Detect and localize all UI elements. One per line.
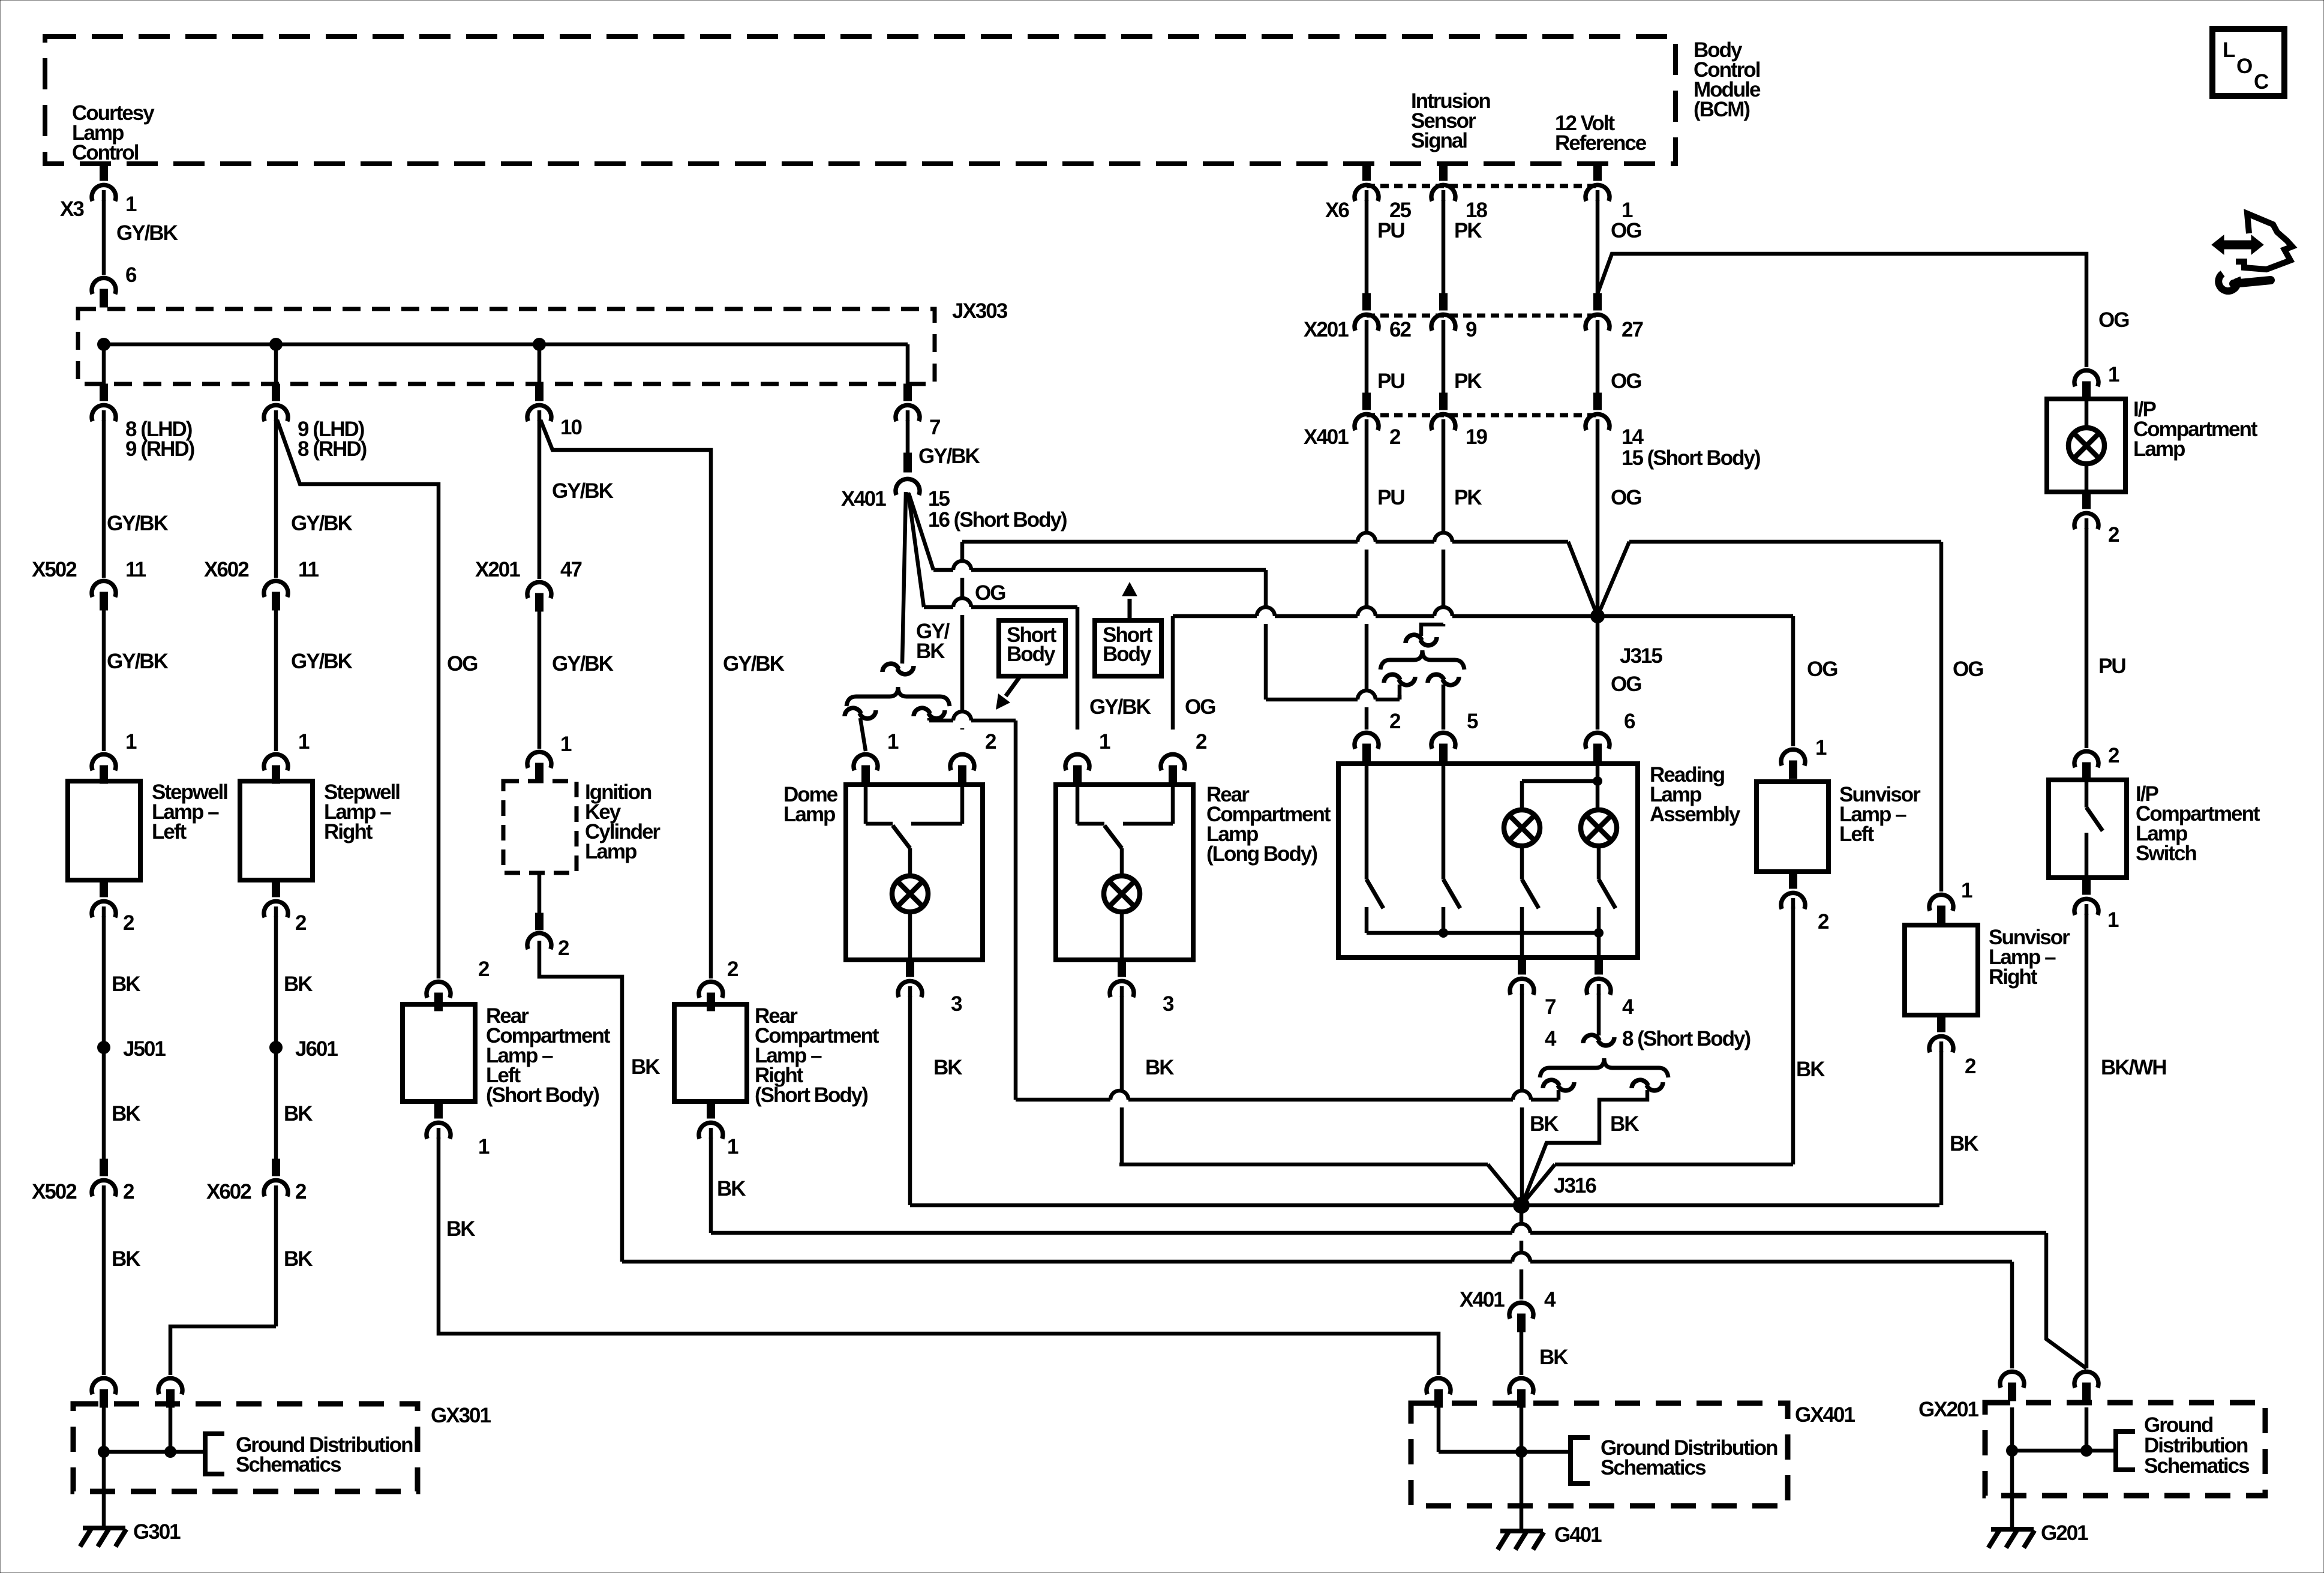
svg-text:GX301: GX301: [431, 1404, 491, 1427]
svg-text:J601: J601: [295, 1037, 338, 1061]
svg-text:Control: Control: [72, 141, 139, 164]
svg-text:2: 2: [2108, 523, 2119, 547]
svg-text:1: 1: [1961, 879, 1972, 902]
svg-text:9 (RHD): 9 (RHD): [125, 437, 194, 461]
svg-text:PU: PU: [2098, 655, 2125, 678]
svg-text:G301: G301: [133, 1520, 181, 1544]
svg-text:16 (Short Body): 16 (Short Body): [928, 508, 1067, 532]
svg-text:PK: PK: [1454, 219, 1482, 242]
svg-text:Schematics: Schematics: [2144, 1454, 2250, 1478]
svg-text:O: O: [2236, 55, 2252, 78]
svg-text:1: 1: [887, 730, 899, 754]
svg-text:62: 62: [1389, 318, 1411, 341]
svg-text:9: 9: [1466, 318, 1477, 341]
svg-text:X401: X401: [1460, 1288, 1505, 1311]
svg-text:GY/BK: GY/BK: [291, 512, 353, 535]
svg-text:BK: BK: [1610, 1112, 1639, 1136]
svg-text:Body: Body: [1103, 643, 1152, 666]
svg-text:Assembly: Assembly: [1650, 803, 1741, 826]
svg-text:BK: BK: [1950, 1132, 1978, 1155]
svg-text:BK: BK: [631, 1055, 660, 1079]
svg-text:15 (Short Body): 15 (Short Body): [1622, 446, 1760, 470]
svg-text:BK: BK: [916, 640, 945, 663]
svg-text:GY/BK: GY/BK: [552, 652, 614, 676]
svg-text:2: 2: [123, 911, 134, 935]
svg-text:C: C: [2254, 70, 2269, 94]
svg-text:OG: OG: [1807, 658, 1837, 681]
svg-text:1: 1: [478, 1135, 490, 1158]
svg-text:Lamp: Lamp: [585, 840, 636, 863]
svg-text:Right: Right: [1989, 965, 2038, 989]
svg-text:19: 19: [1466, 425, 1487, 449]
svg-text:G201: G201: [2041, 1521, 2088, 1545]
svg-text:BK: BK: [284, 972, 313, 996]
svg-text:Schematics: Schematics: [1601, 1456, 1706, 1479]
svg-text:Reference: Reference: [1555, 131, 1647, 155]
svg-text:(Long Body): (Long Body): [1206, 842, 1317, 866]
svg-text:X602: X602: [206, 1180, 251, 1203]
svg-text:J501: J501: [123, 1037, 166, 1061]
svg-text:8 (Short Body): 8 (Short Body): [1622, 1027, 1750, 1050]
svg-text:Switch: Switch: [2136, 842, 2196, 865]
svg-text:2: 2: [478, 957, 490, 981]
svg-text:GY/BK: GY/BK: [116, 221, 178, 245]
svg-text:X3: X3: [60, 197, 84, 221]
svg-text:X201: X201: [475, 558, 520, 581]
svg-text:BK: BK: [112, 1102, 140, 1125]
svg-text:4: 4: [1545, 1027, 1557, 1050]
svg-text:2: 2: [295, 911, 307, 935]
svg-text:11: 11: [125, 558, 146, 581]
svg-text:Schematics: Schematics: [236, 1453, 341, 1476]
svg-text:2: 2: [2108, 744, 2119, 767]
svg-text:7: 7: [1545, 995, 1556, 1019]
svg-text:4: 4: [1622, 995, 1634, 1019]
svg-text:2: 2: [1965, 1055, 1976, 1078]
svg-text:BK: BK: [446, 1217, 475, 1241]
svg-text:PU: PU: [1377, 486, 1404, 509]
svg-text:BK: BK: [1145, 1056, 1174, 1079]
svg-text:15: 15: [928, 487, 950, 511]
svg-text:OG: OG: [2098, 308, 2129, 332]
svg-text:1: 1: [1099, 730, 1110, 754]
svg-text:OG: OG: [447, 652, 478, 676]
svg-text:Body: Body: [1007, 643, 1056, 666]
svg-text:2: 2: [1389, 710, 1401, 733]
svg-text:Lamp: Lamp: [2133, 437, 2185, 461]
svg-text:11: 11: [298, 558, 319, 581]
svg-text:OG: OG: [1611, 673, 1641, 696]
svg-text:2: 2: [558, 936, 569, 960]
svg-text:BK: BK: [1530, 1112, 1559, 1136]
svg-text:GY/BK: GY/BK: [107, 512, 169, 535]
svg-text:1: 1: [727, 1135, 738, 1158]
svg-text:PK: PK: [1454, 486, 1482, 509]
svg-text:GY/BK: GY/BK: [1089, 695, 1151, 719]
svg-text:1: 1: [125, 193, 137, 216]
svg-text:1: 1: [2107, 908, 2119, 932]
svg-text:10: 10: [560, 416, 582, 439]
svg-text:27: 27: [1622, 318, 1643, 341]
svg-text:Signal: Signal: [1411, 129, 1467, 152]
svg-text:OG: OG: [1953, 658, 1983, 681]
svg-text:GY/BK: GY/BK: [552, 479, 614, 503]
svg-text:PU: PU: [1377, 370, 1404, 393]
svg-text:6: 6: [125, 263, 137, 287]
svg-text:14: 14: [1622, 425, 1644, 449]
svg-text:PU: PU: [1377, 219, 1404, 242]
svg-text:2: 2: [985, 730, 996, 754]
svg-text:BK: BK: [717, 1177, 746, 1200]
svg-text:BK: BK: [1796, 1058, 1825, 1081]
svg-text:L: L: [2223, 38, 2235, 62]
svg-text:OG: OG: [1611, 486, 1641, 509]
svg-text:GX201: GX201: [1918, 1398, 1978, 1421]
svg-text:1: 1: [125, 730, 137, 754]
svg-text:2: 2: [123, 1180, 134, 1203]
svg-text:GY/BK: GY/BK: [918, 445, 980, 468]
svg-text:2: 2: [1196, 730, 1207, 754]
svg-text:G401: G401: [1554, 1523, 1602, 1547]
svg-text:GY/BK: GY/BK: [291, 650, 353, 673]
svg-text:BK: BK: [933, 1056, 962, 1079]
svg-text:47: 47: [560, 558, 581, 581]
svg-text:Right: Right: [324, 820, 373, 843]
svg-text:JX303: JX303: [952, 299, 1008, 323]
svg-text:OG: OG: [1611, 219, 1641, 242]
svg-text:GX401: GX401: [1795, 1403, 1855, 1427]
svg-text:X401: X401: [1304, 425, 1349, 449]
svg-text:2: 2: [295, 1180, 307, 1203]
svg-text:8 (RHD): 8 (RHD): [298, 437, 367, 461]
svg-text:BK: BK: [112, 1247, 140, 1271]
svg-text:Left: Left: [152, 820, 187, 843]
svg-text:J315: J315: [1620, 644, 1662, 668]
svg-text:6: 6: [1624, 710, 1635, 733]
svg-text:X602: X602: [204, 558, 249, 581]
svg-text:X502: X502: [32, 1180, 77, 1203]
svg-text:2: 2: [727, 957, 738, 981]
svg-text:OG: OG: [1185, 695, 1215, 719]
svg-text:BK/WH: BK/WH: [2101, 1056, 2166, 1079]
svg-text:PK: PK: [1454, 370, 1482, 393]
svg-text:GY/BK: GY/BK: [723, 652, 785, 676]
svg-text:BK: BK: [284, 1102, 313, 1125]
svg-text:(Short Body): (Short Body): [755, 1083, 867, 1107]
svg-text:(Short Body): (Short Body): [486, 1083, 599, 1107]
svg-text:5: 5: [1467, 710, 1478, 733]
svg-text:1: 1: [2108, 363, 2119, 386]
svg-text:4: 4: [1544, 1288, 1556, 1311]
svg-text:X6: X6: [1325, 199, 1349, 222]
svg-text:BK: BK: [112, 972, 140, 996]
svg-text:GY/BK: GY/BK: [107, 650, 169, 673]
svg-text:2: 2: [1818, 910, 1829, 933]
svg-text:1: 1: [298, 730, 310, 754]
svg-text:3: 3: [951, 992, 962, 1016]
svg-text:Lamp: Lamp: [783, 803, 835, 826]
svg-text:OG: OG: [975, 581, 1005, 605]
svg-text:1: 1: [560, 733, 572, 756]
svg-text:(BCM): (BCM): [1694, 98, 1749, 121]
svg-text:X401: X401: [841, 487, 886, 511]
svg-text:J316: J316: [1554, 1174, 1596, 1197]
svg-text:OG: OG: [1611, 370, 1641, 393]
svg-text:7: 7: [929, 416, 940, 439]
svg-text:3: 3: [1163, 992, 1174, 1016]
svg-text:2: 2: [1389, 425, 1401, 449]
svg-text:1: 1: [1815, 736, 1827, 760]
svg-text:X201: X201: [1304, 318, 1349, 341]
svg-text:X502: X502: [32, 558, 77, 581]
svg-text:BK: BK: [1539, 1346, 1568, 1369]
svg-text:Left: Left: [1839, 822, 1875, 846]
svg-text:BK: BK: [284, 1247, 313, 1271]
